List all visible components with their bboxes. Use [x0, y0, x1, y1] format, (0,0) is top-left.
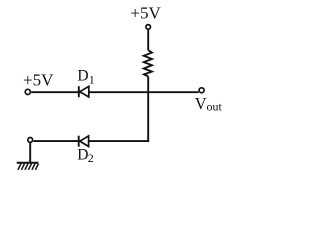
diode D2: [79, 136, 89, 147]
svg-text:2: 2: [88, 151, 94, 165]
svg-text:V: V: [195, 94, 207, 113]
svg-text:1: 1: [89, 73, 95, 87]
wire: top terminal to resistor: [147, 30, 149, 50]
svg-text:+5V: +5V: [130, 4, 161, 23]
wire: ground terminal through D2 position to corner junction: [33, 140, 149, 142]
ground: [17, 143, 39, 170]
terminal node Vout: [199, 88, 204, 93]
terminal node +5V (top): [146, 25, 151, 30]
ground terminal node: [28, 138, 33, 143]
svg-text:+5V: +5V: [23, 71, 54, 90]
svg-text:D: D: [77, 68, 88, 85]
wire: resistor to Vout node, down to D2 corner junction: [147, 76, 149, 142]
svg-text:out: out: [207, 99, 223, 113]
diode D1: [79, 86, 89, 97]
terminal node +5V (left): [25, 89, 30, 94]
wire: left +5V terminal through D1 position to Vout terminal: [31, 91, 198, 93]
resistor: [144, 50, 152, 76]
